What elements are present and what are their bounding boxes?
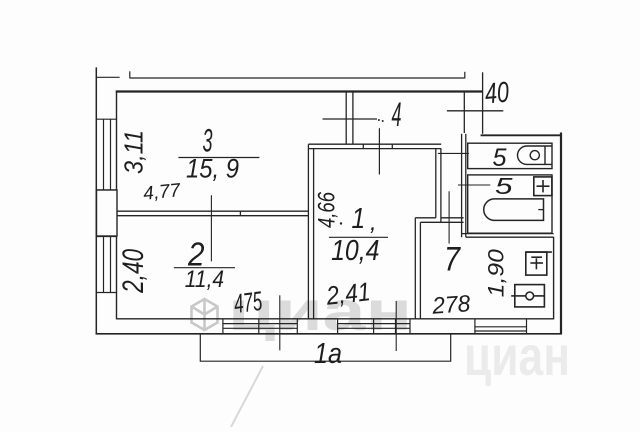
bottom window A (room 2) xyxy=(223,319,297,334)
wall: right outer face xyxy=(560,133,562,335)
bottom window C (kitchen) xyxy=(475,319,527,334)
wall: bottom outer face xyxy=(96,333,562,335)
wall: left inner face xyxy=(116,91,118,320)
toilet bowl xyxy=(518,146,552,164)
svg-text:4,66: 4,66 xyxy=(314,192,341,228)
dimension tick corridor xyxy=(448,191,450,243)
svg-text:278: 278 xyxy=(431,290,472,319)
svg-text:1: 1 xyxy=(352,203,366,235)
leader toilet 5 xyxy=(438,152,469,154)
door mark room 1 xyxy=(378,128,380,174)
svg-text:40: 40 xyxy=(484,77,511,111)
bottom window B (room 1) xyxy=(338,319,410,334)
vent shaft lines with 40 dimension xyxy=(447,72,503,134)
window W1 (room 3) xyxy=(96,119,116,190)
wall: left outer face xyxy=(95,67,97,334)
wall: bathroom left xyxy=(462,134,466,237)
svg-text:5: 5 xyxy=(495,173,514,199)
svg-text:4: 4 xyxy=(392,96,402,134)
sink square with plus xyxy=(534,177,552,196)
wall pier between windows xyxy=(97,190,118,236)
dimension tick left xyxy=(210,195,212,261)
wall: right inner face xyxy=(553,237,555,320)
svg-text:15, 9: 15, 9 xyxy=(186,154,239,184)
dimension tick 475 window xyxy=(279,295,281,350)
wall: bathroom bottom xyxy=(462,234,554,238)
fraction line room 2 xyxy=(174,267,235,269)
svg-text:11,4: 11,4 xyxy=(185,266,224,293)
toilet tank divider xyxy=(544,146,546,164)
wall: top xyxy=(116,90,483,92)
wall: bottom inner face xyxy=(117,318,554,320)
watermark cube logo xyxy=(192,299,218,330)
wall: rooms 2-1 / 3-1 divider xyxy=(308,144,313,319)
leader room 4 xyxy=(323,118,378,120)
wall: room 1 top xyxy=(308,144,441,148)
svg-text:1a: 1a xyxy=(314,338,342,370)
wall: rooms 2/3 divider xyxy=(117,211,309,216)
fraction line room 1 xyxy=(329,236,388,238)
svg-text:3,11: 3,11 xyxy=(119,130,149,174)
svg-text:475: 475 xyxy=(232,286,264,319)
svg-text:,: , xyxy=(370,209,377,236)
dimension tick room1 window xyxy=(395,301,397,351)
wall: kitchen left xyxy=(415,218,420,319)
svg-text:4,77: 4,77 xyxy=(142,180,182,205)
svg-text:7: 7 xyxy=(444,240,461,278)
top dimension line xyxy=(96,71,465,78)
svg-text:10,4: 10,4 xyxy=(331,235,379,267)
wall: rooms 1/7 divider xyxy=(415,218,463,223)
svg-text:2,40: 2,40 xyxy=(117,249,150,294)
svg-text:1,90: 1,90 xyxy=(484,248,509,297)
watermark diagonal stroke xyxy=(231,366,263,427)
bathtub xyxy=(484,199,544,221)
leader bath 5 xyxy=(458,184,490,186)
toilet bowl circle xyxy=(530,151,539,160)
svg-text:5: 5 xyxy=(493,144,507,172)
bathtub drain tick xyxy=(538,209,543,211)
svg-text:2,41: 2,41 xyxy=(324,276,372,311)
kitchen sink symbol xyxy=(511,285,544,307)
bathroom inner box xyxy=(468,175,552,233)
toilet room inner box xyxy=(468,143,552,168)
balcony outline 1a xyxy=(200,334,450,361)
stove symbol xyxy=(526,252,552,275)
wall: room 1 right xyxy=(436,149,441,223)
window W2 (room 2) xyxy=(96,237,116,293)
wall: corridor left (rooms 3/4) xyxy=(346,92,353,144)
wall: toilet top (right section top) xyxy=(481,134,561,136)
fraction line room 3 xyxy=(178,157,259,159)
